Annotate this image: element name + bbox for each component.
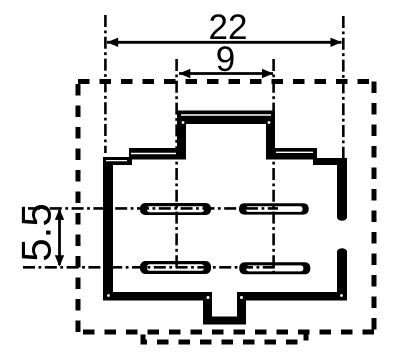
inner white crack right shoulder <box>276 151 313 153</box>
white corner dot bottom tab right <box>240 296 243 299</box>
dimension line 22 <box>107 41 342 44</box>
slot pin 3 (bottom-left terminal slot) <box>140 261 211 274</box>
rounded cap lower right-edge segment <box>337 248 347 254</box>
dimension 9 left arrowhead <box>179 69 190 78</box>
phantom outline right edge <box>372 82 377 333</box>
centerline vertical right (dash-dot, x=273.6) <box>272 59 275 275</box>
phantom outline bottom edge <box>78 330 374 335</box>
slot pin 4 (bottom-right terminal slot) <box>239 262 310 274</box>
bottom edge opening for keying tab (white gap) <box>212 291 237 302</box>
phantom relay body outline (dashed rectangle), top edge <box>78 79 374 84</box>
slot pin 1 (top-left terminal slot) <box>140 203 211 215</box>
phantom outline bottom protrusion (dashed) <box>143 330 306 342</box>
dimension 5.5 bottom arrowhead <box>55 255 64 266</box>
white corner dot body bottom-left <box>107 294 110 297</box>
dimension 9 right arrowhead <box>262 69 273 78</box>
rounded cap upper right-edge segment <box>337 214 347 220</box>
centerline horizontal row 2 (dash-dot, y=267.3) <box>23 266 278 269</box>
dimension 22 left arrowhead <box>107 38 118 47</box>
centerline vertical left (dash-dot, x=176.6) <box>175 59 178 275</box>
dimension 5.5 top arrowhead <box>55 209 64 220</box>
dimension 22 right arrowhead <box>331 38 342 47</box>
svg-text:9: 9 <box>216 40 235 79</box>
phantom outline left edge <box>76 82 81 333</box>
extension line left (dash-dot, x=105) <box>104 15 107 153</box>
white corner dot tab right <box>268 121 271 124</box>
extension line right (dash-dot, x=343) <box>342 16 345 158</box>
svg-text:5.5: 5.5 <box>13 203 60 261</box>
centerline horizontal row 1 (dash-dot, y=208.4) <box>28 207 278 210</box>
bottom keying tab (U channel) <box>203 292 246 325</box>
inner white crack left corner <box>106 160 127 162</box>
inner white crack on tab top <box>181 114 271 116</box>
inner white crack left shoulder <box>131 153 176 155</box>
white corner dot tab left <box>182 121 185 124</box>
dimension line 9 <box>179 72 273 75</box>
dimension line 5.5 (vertical) <box>58 210 61 265</box>
white corner dot body bottom-right <box>340 294 343 297</box>
white corner dot bottom tab left <box>207 296 210 299</box>
right edge gap (latch opening) <box>335 218 350 251</box>
connector outline (thick band with top tab and stepped shoulders) <box>103 111 347 301</box>
slot pin 2 (top-right terminal slot) <box>239 203 309 214</box>
